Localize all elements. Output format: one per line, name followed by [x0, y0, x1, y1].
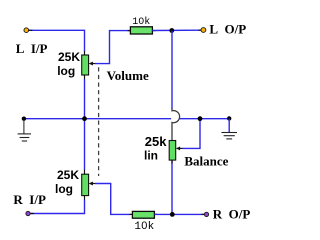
wire: VR1 wiper up to resistor R1: [95, 31, 130, 64]
wire: VR1 bottom through ground rail to top of VR2: [84, 79, 86, 170]
wire: L I/P to top of volume pot VR1: [29, 30, 85, 51]
wire: VR2 wiper down to resistor R2: [95, 184, 130, 215]
wire: VR3 wiper up to ground rail: [182, 119, 200, 148]
wiper arrow of VR2: [89, 182, 93, 186]
ground symbol right: [221, 119, 237, 139]
wiper arrow of VR1: [89, 62, 93, 66]
wire: R1 to L O/P terminal: [152, 29, 201, 31]
wire: black leads of R1: [128, 30, 131, 32]
svg-text:25K: 25K: [57, 168, 79, 182]
node: junction of R1, L O/P and balance feed: [169, 28, 174, 33]
svg-text:25k: 25k: [145, 134, 167, 149]
node: junction of R2, balance bottom and R O/P: [170, 212, 175, 217]
wire: R2 to R O/P terminal: [154, 213, 204, 215]
wire: black top lead of VR1: [84, 51, 86, 55]
svg-text:log: log: [57, 64, 75, 78]
wire: black lead stub at L I/P terminal: [29, 29, 33, 31]
wire: black top lead of VR2: [84, 170, 86, 175]
svg-text:R I/P: R I/P: [13, 192, 46, 207]
node: right end of rail: [227, 116, 231, 120]
potentiometer VR1 25K log (left volume): [82, 55, 89, 75]
ground symbol left: [18, 120, 31, 142]
svg-text:10k: 10k: [134, 221, 154, 233]
svg-text:R O/P: R O/P: [213, 207, 251, 222]
svg-text:10k: 10k: [132, 16, 150, 28]
svg-text:L I/P: L I/P: [16, 41, 48, 56]
ganged dashed link between volume pot wipers: [98, 67, 100, 176]
node: rail to balance wiper: [198, 116, 203, 121]
wire: black leads of R2: [130, 213, 133, 215]
terminal: R I/P (purple): [26, 211, 30, 215]
wire: black bottom lead of VR1: [84, 75, 86, 80]
svg-text:25K: 25K: [58, 50, 80, 64]
svg-text:log: log: [55, 182, 73, 196]
wire: junction down towards balance pot: [171, 31, 173, 109]
wire: black lead stub at R I/P terminal: [30, 213, 34, 215]
wire hop over ground rail: [172, 108, 180, 140]
terminal: L I/P (gold): [24, 28, 29, 33]
resistor R2 10k: [132, 211, 154, 218]
wire: VR3 bottom to bottom output rail: [171, 161, 173, 215]
svg-text:Volume: Volume: [107, 68, 149, 83]
wiper arrow of VR3: [176, 146, 180, 150]
ground rail (middle horizontal, interrupted at wire hop): [24, 118, 171, 120]
svg-text:lin: lin: [144, 148, 158, 162]
wire: black bottom lead of VR2: [84, 196, 86, 200]
wire: black bottom lead of VR3: [171, 160, 173, 163]
terminal: R O/P (purple): [204, 212, 208, 216]
node: rail to volume pots chain: [82, 116, 87, 121]
potentiometer VR2 25K log (right volume): [82, 174, 89, 195]
wire: VR2 bottom to R I/P terminal: [30, 200, 84, 214]
node: left end of rail: [22, 117, 26, 121]
svg-text:Balance: Balance: [184, 153, 228, 168]
svg-text:L O/P: L O/P: [209, 22, 246, 37]
wire: black lead stub at L O/P terminal: [198, 29, 201, 31]
wire: black lead stub at R O/P terminal: [201, 213, 204, 215]
resistor R1 10k: [130, 27, 152, 34]
terminal: L O/P (gold): [201, 28, 206, 33]
potentiometer VR3 25k lin (balance): [169, 141, 176, 161]
